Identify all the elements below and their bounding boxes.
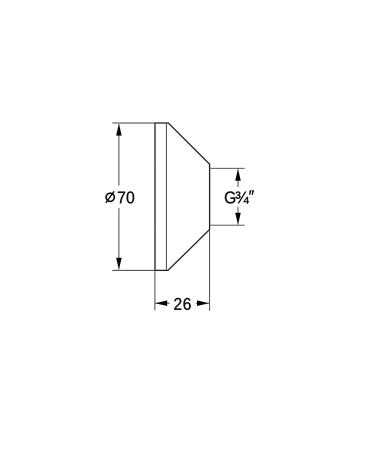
- label G34 double prime: [249, 190, 254, 194]
- dim O70 dimension line upper segment: [118, 124, 120, 185]
- label O70 diameter symbol circle: [106, 193, 114, 201]
- dim G34 arrow down: [235, 213, 241, 225]
- label 26 digit 6: [183, 298, 190, 310]
- dim 26 dimension line left segment: [155, 302, 169, 304]
- dim O70 arrow down: [116, 258, 122, 270]
- dim 26 arrow right: [197, 300, 209, 306]
- label 26 digit 2: [174, 298, 181, 310]
- dim O70 bottom extension line: [112, 269, 154, 271]
- label O70 digit 7: [118, 192, 125, 204]
- flange face line: [165, 124, 167, 270]
- dim 26 dimension line right segment: [196, 302, 209, 304]
- dim O70 top extension line: [112, 122, 154, 124]
- escutcheon outline: [155, 123, 210, 270]
- dim G34 top extension line: [210, 167, 244, 169]
- label G34 letter G: [225, 191, 235, 203]
- label O70 digit 0: [127, 191, 134, 203]
- dim G34 dimension line upper segment: [237, 169, 239, 187]
- dim O70 arrow up: [116, 124, 122, 136]
- dim O70 dimension line lower segment: [118, 208, 120, 269]
- dim G34 bottom extension line: [210, 224, 244, 226]
- dim 26 left extension line: [154, 271, 156, 310]
- label G34 fraction three-quarters: [235, 192, 248, 204]
- dim G34 dimension line lower segment: [237, 207, 239, 224]
- dim 26 arrow left: [155, 300, 167, 306]
- dim G34 arrow up: [235, 169, 241, 181]
- label O70 diameter symbol slash: [106, 191, 114, 203]
- dim 26 right extension line: [209, 230, 211, 310]
